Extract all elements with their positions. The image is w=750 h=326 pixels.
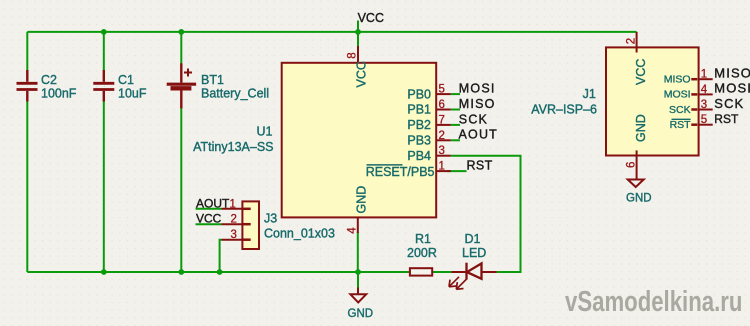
svg-text:AVR–ISP–6: AVR–ISP–6: [531, 103, 597, 117]
svg-text:AOUT: AOUT: [196, 196, 230, 210]
wire top rail: [27, 31, 636, 33]
svg-text:BT1: BT1: [201, 73, 224, 87]
wire VCC stub: [357, 21, 359, 32]
svg-text:MISO: MISO: [459, 97, 496, 111]
wire left rail upper / C2 top lead: [26, 32, 28, 71]
svg-text:GND: GND: [355, 186, 369, 214]
ground at J1: [628, 180, 644, 188]
svg-text:100nF: 100nF: [41, 87, 77, 101]
svg-text:3: 3: [439, 145, 445, 157]
svg-text:MOSI: MOSI: [459, 82, 496, 96]
connector J1: [606, 47, 699, 155]
svg-text:PB2: PB2: [407, 118, 431, 132]
svg-text:4: 4: [701, 84, 708, 96]
wire GND drop: [357, 272, 359, 288]
wire U1 pin4 to rail: [357, 232, 359, 272]
resistor R1: [410, 268, 432, 275]
svg-text:4: 4: [347, 227, 359, 234]
J1 pin 2 VCC: [636, 32, 638, 53]
junction bottom rail C1: [101, 269, 107, 275]
svg-text:1: 1: [701, 69, 707, 81]
J1 pin 1: [699, 78, 713, 80]
svg-text:J3: J3: [264, 212, 277, 226]
svg-text:PB1: PB1: [407, 103, 431, 117]
LED D1: [452, 271, 467, 273]
svg-text:VCC: VCC: [358, 11, 384, 25]
svg-text:10uF: 10uF: [118, 87, 147, 101]
svg-text:Battery_Cell: Battery_Cell: [201, 87, 269, 101]
svg-text:1: 1: [439, 161, 445, 173]
wire bottom rail: [27, 271, 452, 273]
J3 pin 1: [222, 208, 243, 210]
svg-text:2: 2: [231, 214, 237, 226]
svg-text:RST: RST: [467, 159, 493, 173]
svg-text:PB0: PB0: [407, 87, 431, 101]
J3 pin 3: [222, 239, 243, 241]
U1 pin 4 GND: [357, 217, 359, 233]
svg-text:2: 2: [439, 130, 445, 142]
svg-text:SCK: SCK: [669, 104, 691, 116]
wire BT1 vertical lower: [180, 108, 182, 273]
J1 pin 4: [699, 93, 713, 95]
svg-text:RST: RST: [670, 119, 692, 131]
wire U1 label stub SCK: [451, 124, 460, 126]
wire C1 vertical upper: [103, 32, 105, 71]
wire U1 label stub MOSI: [451, 93, 460, 95]
wire C1 vertical lower: [103, 101, 105, 273]
svg-text:MISO: MISO: [714, 66, 750, 81]
svg-text:200R: 200R: [407, 246, 437, 260]
svg-text:6: 6: [439, 99, 445, 111]
wire U1 label stub RST: [447, 170, 467, 172]
svg-text:VCC: VCC: [355, 61, 369, 87]
wire LED left lead join: [432, 271, 452, 273]
svg-text:vSamodelkina.ru: vSamodelkina.ru: [565, 286, 742, 317]
svg-text:7: 7: [439, 114, 445, 126]
svg-text:C1: C1: [118, 73, 134, 87]
junction top rail C1: [101, 29, 107, 35]
wire U1 label stub AOUT: [451, 139, 460, 141]
svg-text:5: 5: [439, 84, 445, 96]
svg-text:D1: D1: [465, 232, 481, 246]
wire U1 label stub MISO: [451, 109, 460, 111]
J1 RST overline: [672, 118, 691, 120]
wire J3 label stub AOUT: [196, 208, 222, 210]
svg-text:R1: R1: [415, 232, 431, 246]
junction bottom rail J3: [217, 269, 223, 275]
svg-text:J1: J1: [583, 87, 596, 101]
U1 pin 8 VCC: [357, 46, 359, 63]
wire PB4 to LED: [451, 156, 521, 272]
svg-text:RESET/PB5: RESET/PB5: [366, 165, 435, 179]
connector J3: [242, 201, 259, 249]
wire J3 label stub VCC: [196, 223, 222, 225]
J3 pin 2: [222, 223, 243, 225]
svg-text:5: 5: [701, 114, 707, 126]
svg-text:8: 8: [347, 52, 359, 58]
junction top rail VCC: [355, 29, 361, 35]
svg-text:3: 3: [231, 229, 237, 241]
battery BT1: [167, 63, 196, 108]
svg-text:2: 2: [626, 38, 638, 44]
junction bottom rail BT1: [178, 269, 184, 275]
wire J3 pin3 drop: [220, 240, 222, 272]
svg-text:VCC: VCC: [634, 59, 648, 85]
wire BT1 vertical upper: [180, 32, 182, 65]
svg-text:PB3: PB3: [407, 134, 431, 148]
svg-text:GND: GND: [348, 308, 374, 320]
svg-text:6: 6: [626, 162, 638, 168]
ground at U1: [357, 288, 359, 295]
wire left rail lower: [26, 101, 28, 273]
J1 pin 6 GND: [636, 150, 638, 179]
capacitor C1: [93, 70, 114, 102]
J1 pin 5: [699, 124, 713, 126]
svg-text:MOSI: MOSI: [714, 81, 750, 96]
svg-text:VCC: VCC: [196, 212, 222, 226]
svg-text:GND: GND: [634, 114, 648, 142]
svg-text:SCK: SCK: [714, 96, 744, 111]
svg-text:LED: LED: [462, 246, 486, 260]
svg-text:C2: C2: [41, 73, 57, 87]
IC U1 body: [282, 63, 437, 218]
junction top rail BT1: [178, 29, 184, 35]
svg-text:RST: RST: [714, 112, 739, 126]
svg-text:MISO: MISO: [664, 74, 691, 86]
capacitor C2: [17, 70, 38, 102]
svg-text:AOUT: AOUT: [459, 128, 499, 142]
svg-text:SCK: SCK: [459, 112, 488, 126]
junction bottom rail GND: [355, 269, 361, 275]
svg-text:MOSI: MOSI: [664, 89, 691, 101]
U1 RESET overline: [367, 164, 403, 166]
svg-text:U1: U1: [257, 125, 273, 139]
svg-text:ATtiny13A–SS: ATtiny13A–SS: [193, 140, 273, 154]
U1 right pins 5,6,7,2,3,1: [436, 94, 451, 171]
LED emission arrows: [449, 277, 466, 290]
svg-text:3: 3: [701, 99, 707, 111]
wire U1 pin8 drop: [357, 32, 359, 48]
svg-text:1: 1: [230, 198, 236, 210]
J1 pin 3: [699, 109, 713, 111]
svg-text:PB4: PB4: [407, 149, 431, 163]
svg-text:Conn_01x03: Conn_01x03: [264, 227, 335, 241]
svg-text:GND: GND: [626, 193, 652, 205]
